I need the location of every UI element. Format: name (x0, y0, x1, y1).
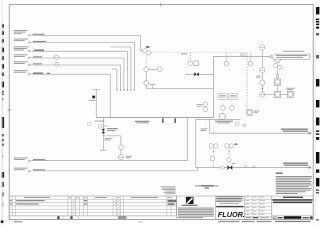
svg-text:FLUOR.: FLUOR. (218, 210, 245, 219)
